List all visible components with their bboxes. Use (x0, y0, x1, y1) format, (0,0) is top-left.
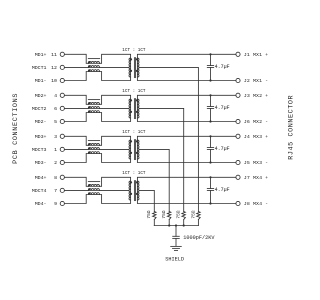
resistor R1 75ohm (190, 210, 200, 225)
svg-text:3: 3 (54, 134, 57, 140)
wire choke to T2 primary + (100, 95, 131, 104)
capacitor C5 1000pF/2KV (173, 226, 180, 246)
wire choke to T4 primary + (100, 177, 131, 186)
svg-text:1CT : 1CT: 1CT : 1CT (122, 171, 146, 176)
svg-text:4: 4 (54, 93, 57, 99)
wire T1 secondary CT to R1 rail (139, 67, 199, 211)
svg-text:9: 9 (54, 201, 57, 207)
terminal MD2- pin 5 (35, 119, 65, 125)
terminal J5 MX3 - (236, 160, 268, 166)
junction dot J5 line (209, 161, 211, 163)
wire choke to T1 primary - (100, 72, 131, 81)
svg-text:1000pF/2KV: 1000pF/2KV (183, 235, 215, 241)
wire choke to T4 primary - (100, 195, 131, 204)
svg-text:MD1+: MD1+ (35, 52, 47, 58)
wire T2 secondary + to J3 (137, 95, 236, 99)
wire choke to T2 primary - (100, 113, 131, 122)
svg-text:MD1-: MD1- (35, 78, 47, 84)
wire T2 secondary - to J6 (137, 118, 236, 121)
terminal MDCT2 pin 6 (32, 106, 65, 112)
terminal MD4- pin 9 (35, 201, 65, 207)
svg-text:MD4+: MD4+ (35, 175, 47, 181)
svg-text:4.7µF: 4.7µF (215, 105, 230, 111)
wire T3 secondary + to J4 (137, 136, 236, 140)
svg-text:1CT : 1CT: 1CT : 1CT (122, 130, 146, 135)
terminal MD1- pin 10 (35, 78, 65, 84)
junction dot J6 line (209, 120, 211, 122)
transformer T1 1CT:1CT (129, 58, 139, 78)
svg-text:J4 MX3 +: J4 MX3 + (244, 134, 268, 140)
svg-text:75Ω: 75Ω (176, 210, 182, 218)
junction dot J3 line (209, 94, 211, 96)
terminal J8 MX4 - (236, 201, 268, 207)
wire choke to T1 primary + (100, 54, 131, 63)
terminal J6 MX2 - (236, 119, 268, 125)
capacitor C3 4.7uF (207, 136, 213, 162)
junction dot bus cap (175, 224, 177, 226)
svg-text:MDCT1: MDCT1 (32, 65, 47, 71)
wire T2 secondary CT to R2 rail (139, 108, 184, 211)
svg-text:4.7µF: 4.7µF (215, 146, 230, 152)
common-mode choke ch2 (88, 100, 100, 113)
svg-text:J1 MX1 +: J1 MX1 + (244, 52, 268, 58)
svg-text:75Ω: 75Ω (146, 210, 152, 218)
terminal J3 MX2 + (236, 93, 268, 99)
wire choke to T3 primary - (100, 154, 131, 163)
svg-text:10: 10 (51, 78, 57, 84)
common-mode choke ch1 (88, 59, 100, 72)
svg-text:8: 8 (54, 175, 57, 181)
common-mode choke ch3 (88, 141, 100, 154)
svg-text:75Ω: 75Ω (161, 210, 167, 218)
wire choke to T4 primary CT (100, 189, 130, 191)
junction dot J4 line (209, 135, 211, 137)
junction dot bus R3 (183, 224, 185, 226)
wire MD4+ to choke (64, 177, 88, 186)
svg-text:RJ45 CONNECTOR: RJ45 CONNECTOR (287, 95, 295, 160)
terminal MDCT1 pin 12 (32, 65, 65, 71)
capacitor C4 4.7uF (207, 177, 213, 203)
svg-text:5: 5 (54, 119, 57, 125)
junction dot J8 line (209, 202, 211, 204)
ground (shield) (171, 246, 182, 250)
wire MD3+ to choke (64, 136, 88, 145)
junction dot J7 line (209, 176, 211, 178)
svg-text:J3 MX2 +: J3 MX2 + (244, 93, 268, 99)
wire MD2- to choke (64, 113, 88, 122)
svg-text:J2 MX1 -: J2 MX1 - (244, 78, 268, 84)
transformer T4 1CT:1CT (129, 181, 139, 201)
wire shield bus (154, 225, 198, 227)
svg-text:MDCT2: MDCT2 (32, 106, 47, 112)
svg-text:11: 11 (51, 52, 57, 58)
wire MD1- to choke (64, 72, 88, 81)
terminal MD1+ pin 11 (35, 52, 65, 58)
wire T3 secondary - to J5 (137, 159, 236, 162)
resistor R3 75ohm (161, 210, 171, 225)
terminal MD2+ pin 4 (35, 93, 65, 99)
svg-text:MD2+: MD2+ (35, 93, 47, 99)
wire MD3- to choke (64, 154, 88, 163)
wire T4 secondary CT to R4 rail (139, 190, 154, 211)
svg-text:1CT : 1CT: 1CT : 1CT (122, 89, 146, 94)
wire choke to T2 primary CT (100, 107, 130, 109)
transformer T3 1CT:1CT (129, 140, 139, 160)
svg-text:SHIELD: SHIELD (165, 256, 184, 262)
capacitor C1 4.7uF (207, 54, 213, 80)
svg-text:MD3+: MD3+ (35, 134, 47, 140)
wire MD4- to choke (64, 195, 88, 204)
wire MDCT4 to choke (64, 189, 88, 191)
svg-text:4.7µF: 4.7µF (215, 64, 230, 70)
terminal MD4+ pin 8 (35, 175, 65, 181)
wire MDCT1 to choke (64, 66, 88, 68)
svg-text:J7 MX4 +: J7 MX4 + (244, 175, 268, 181)
terminal J7 MX4 + (236, 175, 268, 181)
junction dot J2 line (209, 79, 211, 81)
wire T4 secondary + to J7 (137, 177, 236, 181)
svg-text:7: 7 (54, 188, 57, 194)
capacitor C2 4.7uF (207, 95, 213, 121)
junction dot J1 line (209, 53, 211, 55)
svg-text:PCB CONNECTIONS: PCB CONNECTIONS (12, 93, 20, 164)
svg-text:MD4-: MD4- (35, 201, 47, 207)
svg-text:4.7µF: 4.7µF (215, 187, 230, 193)
svg-text:12: 12 (51, 65, 57, 71)
svg-text:2: 2 (54, 160, 57, 166)
svg-text:6: 6 (54, 106, 57, 112)
svg-text:J8 MX4 -: J8 MX4 - (244, 201, 268, 207)
wire choke to T3 primary + (100, 136, 131, 145)
wire MD2+ to choke (64, 95, 88, 104)
transformer T2 1CT:1CT (129, 99, 139, 119)
wire T3 secondary CT to R3 rail (139, 149, 169, 211)
wire MDCT2 to choke (64, 107, 88, 109)
terminal J1 MX1 + (236, 52, 268, 58)
wire T1 secondary - to J2 (137, 77, 236, 80)
wire choke to T3 primary CT (100, 148, 130, 150)
wire MDCT3 to choke (64, 148, 88, 150)
svg-text:J5 MX3 -: J5 MX3 - (244, 160, 268, 166)
terminal MD3+ pin 3 (35, 134, 65, 140)
wire T1 secondary + to J1 (137, 54, 236, 58)
terminal J4 MX3 + (236, 134, 268, 140)
common-mode choke ch4 (88, 182, 100, 195)
terminal MDCT4 pin 7 (32, 188, 65, 194)
svg-text:MD2-: MD2- (35, 119, 47, 125)
terminal MDCT3 pin 1 (32, 147, 65, 153)
wire choke to T1 primary CT (100, 66, 130, 68)
svg-text:MD3-: MD3- (35, 160, 47, 166)
junction dot bus R2 (168, 224, 170, 226)
wire T4 secondary - to J8 (137, 200, 236, 203)
svg-text:1CT : 1CT: 1CT : 1CT (122, 48, 146, 53)
terminal J2 MX1 - (236, 78, 268, 84)
svg-text:MDCT4: MDCT4 (32, 188, 47, 194)
wire MD1+ to choke (64, 54, 88, 63)
svg-text:1: 1 (54, 147, 57, 153)
terminal MD3- pin 2 (35, 160, 65, 166)
svg-text:MDCT3: MDCT3 (32, 147, 47, 153)
svg-text:J6 MX2 -: J6 MX2 - (244, 119, 268, 125)
svg-text:75Ω: 75Ω (190, 210, 196, 218)
resistor R4 75ohm (146, 210, 156, 225)
resistor R2 75ohm (176, 210, 186, 225)
